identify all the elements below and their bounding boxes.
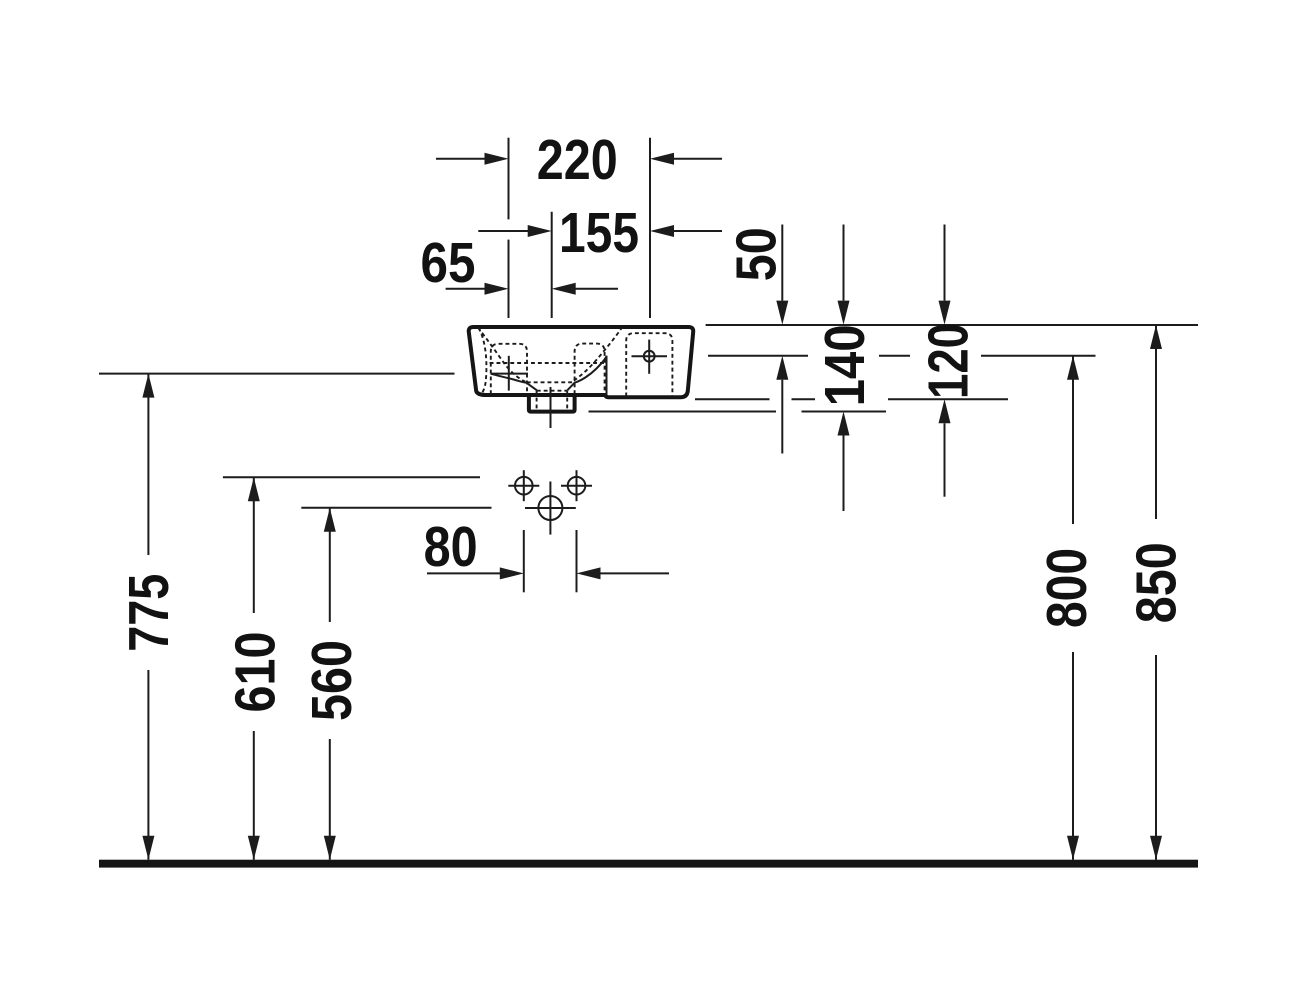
svg-text:50: 50 — [724, 227, 788, 281]
svg-text:800: 800 — [1035, 548, 1099, 628]
svg-text:850: 850 — [1125, 542, 1189, 623]
svg-text:560: 560 — [300, 640, 364, 721]
svg-text:155: 155 — [559, 201, 639, 265]
svg-text:80: 80 — [424, 515, 478, 579]
svg-text:120: 120 — [917, 323, 981, 399]
svg-text:140: 140 — [813, 324, 877, 406]
svg-text:610: 610 — [224, 632, 288, 713]
svg-text:775: 775 — [117, 574, 181, 652]
svg-text:220: 220 — [537, 128, 618, 192]
svg-text:65: 65 — [421, 231, 476, 295]
